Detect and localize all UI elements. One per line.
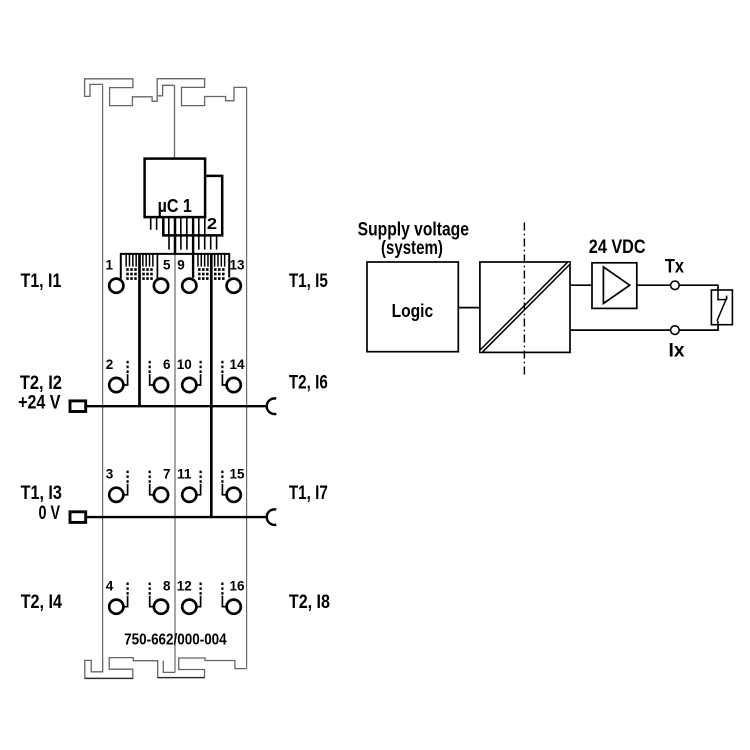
- svg-text:10: 10: [177, 357, 192, 372]
- svg-text:(system): (system): [381, 238, 443, 259]
- terminal 6: [149, 357, 171, 392]
- switch S1 field device: [711, 290, 732, 325]
- wire Tx to connector: [679, 285, 718, 290]
- label T2, I4: [21, 592, 63, 613]
- node data bus row 1: [121, 254, 229, 279]
- label T2, I8: [289, 592, 330, 613]
- wire uC pin to data bus: [174, 217, 177, 255]
- svg-text:T2, I8: T2, I8: [289, 592, 330, 613]
- dashed isolation line: [523, 223, 525, 377]
- terminal 1: [106, 258, 124, 293]
- svg-text:6: 6: [163, 357, 171, 372]
- wire logic to converter: [458, 307, 480, 309]
- svg-text:T1, I1: T1, I1: [21, 271, 62, 292]
- terminal 12: [177, 579, 202, 614]
- svg-text:Logic: Logic: [392, 300, 434, 321]
- terminal 11: [177, 467, 202, 502]
- module center divider wire: [174, 254, 176, 672]
- svg-text:750-662/000-004: 750-662/000-004: [124, 632, 227, 649]
- node +24V bus: [70, 398, 276, 414]
- interface block U2 (label 2): [163, 176, 222, 236]
- svg-text:24 VDC: 24 VDC: [589, 237, 646, 258]
- label T1, I5: [289, 271, 328, 292]
- svg-text:Ix: Ix: [669, 340, 685, 361]
- label Supply voltage (system): [358, 220, 469, 259]
- svg-text:2: 2: [106, 357, 114, 372]
- svg-text:11: 11: [177, 467, 192, 482]
- module right edge wire: [246, 87, 248, 668]
- label +24 V: [18, 392, 61, 413]
- svg-text:T2, I4: T2, I4: [21, 592, 63, 613]
- label T2, I6: [289, 373, 328, 394]
- amplifier U5: [592, 263, 637, 309]
- logic box U3: [367, 262, 458, 352]
- module left edge wire: [102, 84, 104, 671]
- terminal 10: [177, 357, 202, 392]
- interface block U2 pins: [169, 235, 217, 249]
- svg-text:T1, I7: T1, I7: [289, 483, 328, 504]
- DC/DC converter U4: [480, 262, 570, 352]
- svg-text:7: 7: [163, 467, 171, 482]
- svg-text:Tx: Tx: [665, 256, 685, 277]
- svg-text:1: 1: [106, 258, 114, 273]
- node Tx: [665, 256, 685, 289]
- wire converter to Ix: [570, 329, 671, 331]
- svg-text:T1, I5: T1, I5: [289, 271, 328, 292]
- terminal 7: [149, 467, 171, 502]
- terminal 15: [221, 467, 245, 502]
- svg-text:15: 15: [229, 467, 245, 482]
- svg-text:5: 5: [163, 258, 171, 273]
- svg-text:14: 14: [229, 357, 245, 372]
- wire amplifier to Tx: [637, 284, 671, 286]
- label T1, I1: [21, 271, 62, 292]
- svg-text:13: 13: [229, 258, 245, 273]
- svg-text:+24 V: +24 V: [18, 392, 61, 413]
- terminal 3: [106, 467, 129, 502]
- terminal 13: [227, 258, 245, 293]
- terminal 8: [149, 579, 171, 614]
- terminal 4: [106, 579, 129, 614]
- row 1 comb left: [126, 254, 225, 280]
- label T2, I2: [20, 373, 62, 394]
- svg-text:2: 2: [207, 216, 217, 233]
- svg-text:µC 1: µC 1: [158, 195, 192, 216]
- svg-text:9: 9: [177, 258, 185, 273]
- label T1, I3: [21, 483, 62, 504]
- terminal 5: [154, 258, 171, 293]
- antenna wire to uC: [174, 85, 176, 158]
- wire +24V feed: [138, 254, 141, 406]
- label 0 V: [39, 503, 61, 524]
- svg-text:4: 4: [106, 579, 114, 594]
- terminal 16: [221, 579, 245, 614]
- terminal 9: [177, 258, 196, 293]
- module housing top profile: [85, 79, 247, 106]
- label part number: [124, 632, 227, 649]
- terminal 2: [106, 357, 129, 392]
- svg-text:12: 12: [177, 579, 192, 594]
- svg-text:T2, I2: T2, I2: [20, 373, 62, 394]
- microcontroller U1 µC 1: [145, 159, 206, 218]
- svg-text:T1, I3: T1, I3: [21, 483, 62, 504]
- node 0V bus: [70, 509, 276, 525]
- terminal 14: [221, 357, 245, 392]
- svg-text:T2, I6: T2, I6: [289, 373, 328, 394]
- wire converter to amplifier: [570, 284, 592, 286]
- wire Ix to connector: [679, 325, 718, 330]
- node Ix: [669, 326, 685, 361]
- svg-text:8: 8: [163, 579, 171, 594]
- svg-text:3: 3: [106, 467, 114, 482]
- svg-text:16: 16: [229, 579, 245, 594]
- module housing bottom profile: [85, 658, 247, 679]
- wire 0V feed: [210, 254, 213, 517]
- wire uC pin to terminal 9: [192, 217, 194, 278]
- label 24 VDC: [589, 237, 646, 258]
- label T1, I7: [289, 483, 328, 504]
- microcontroller U1 pins: [151, 217, 205, 235]
- svg-text:0 V: 0 V: [39, 503, 61, 524]
